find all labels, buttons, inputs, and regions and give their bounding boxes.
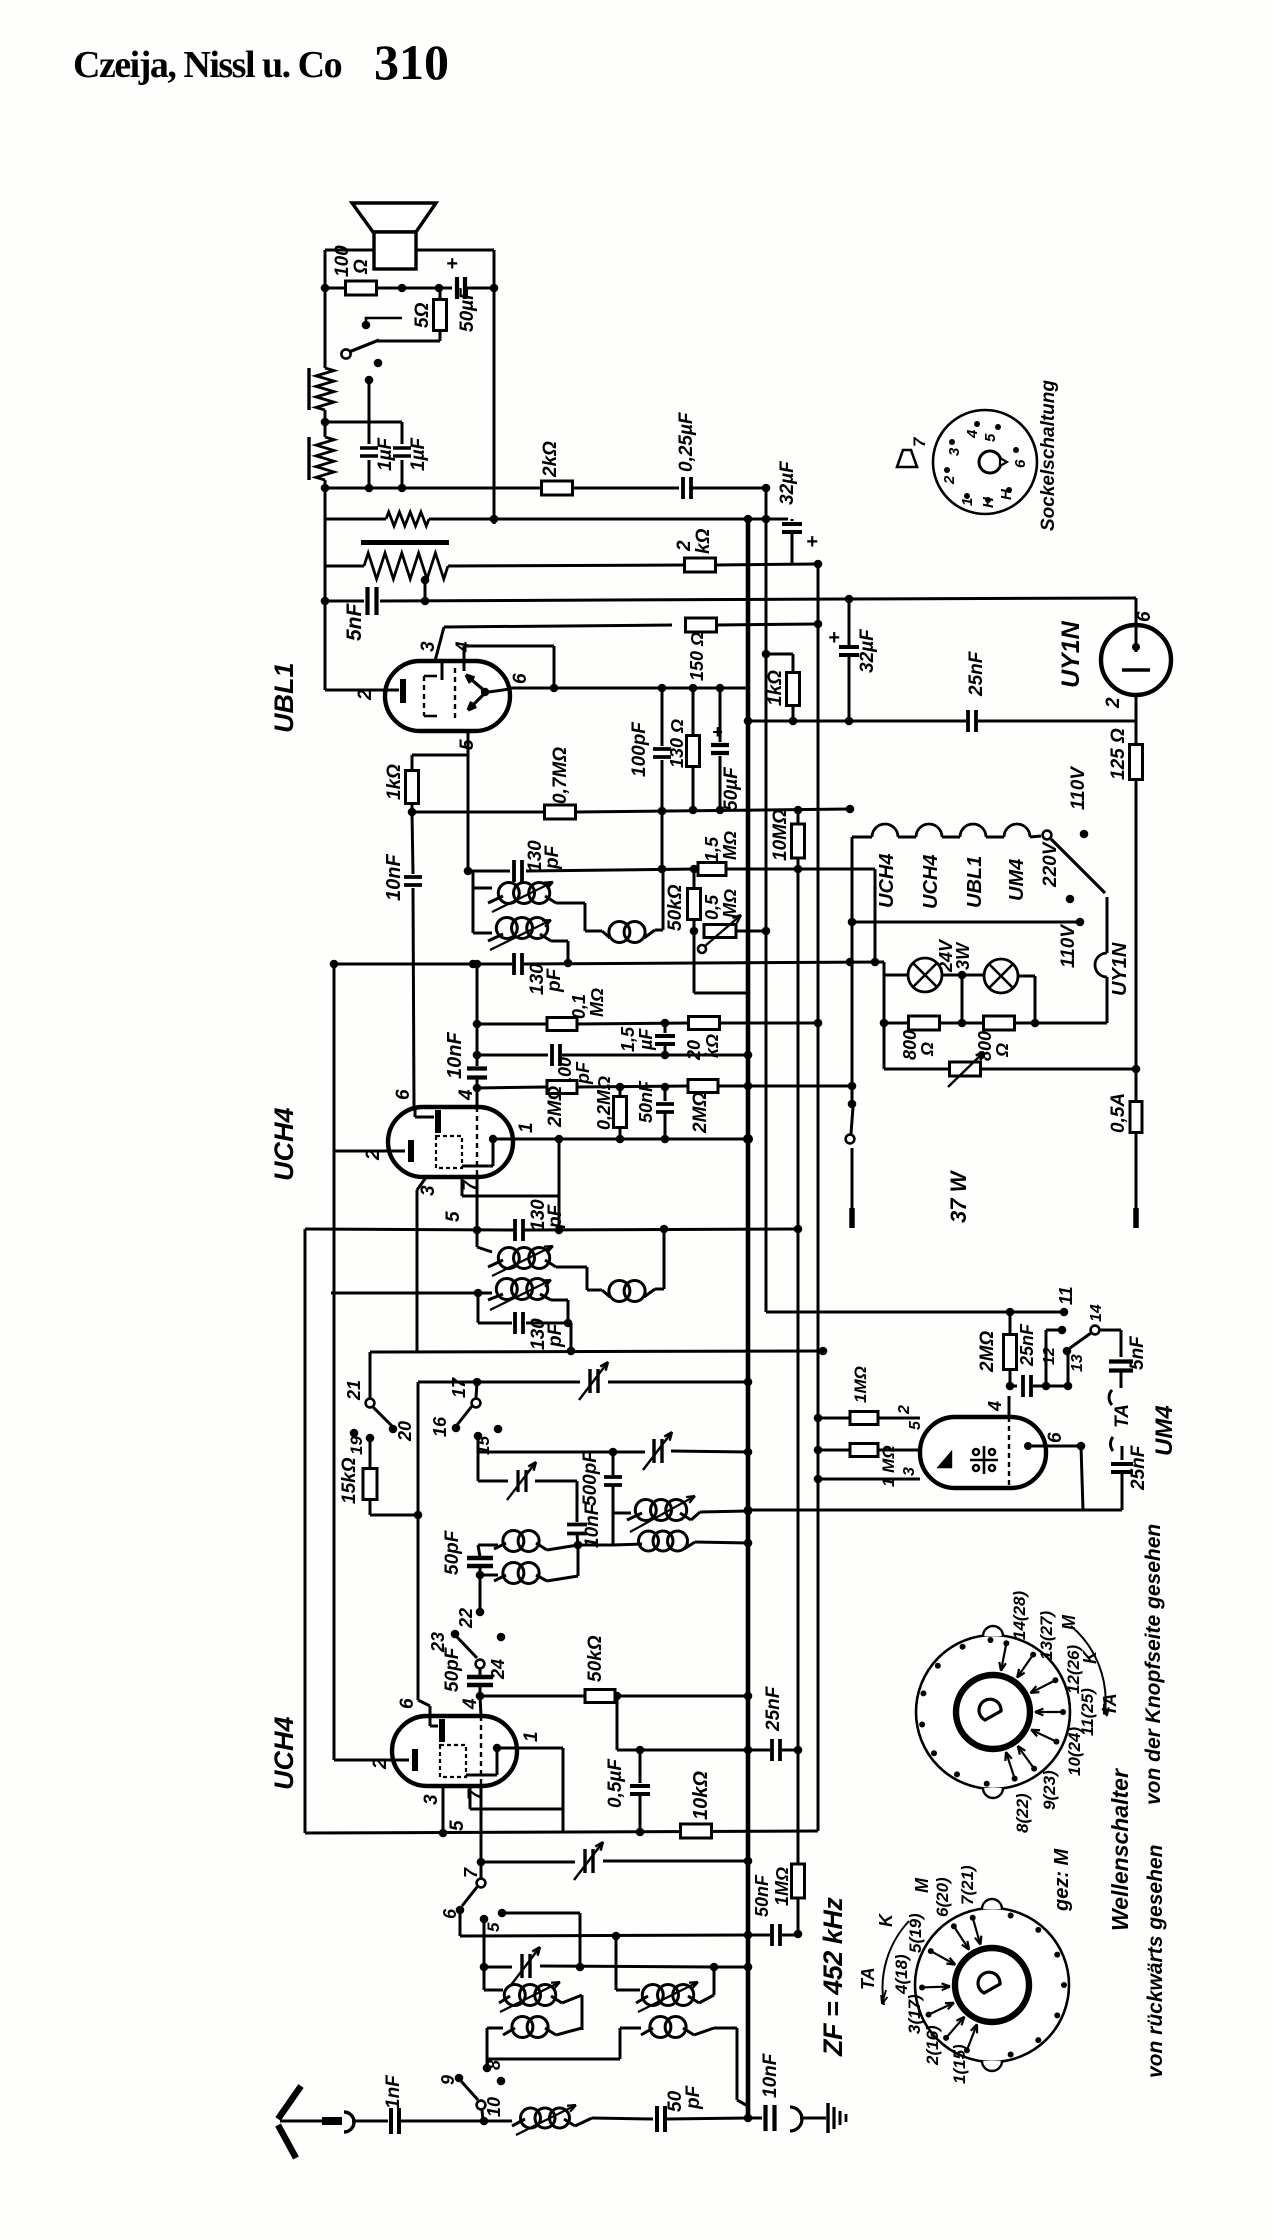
wire grid line x=477 with 10nF — [473, 960, 482, 969]
svg-text:3(17): 3(17) — [905, 1994, 924, 2034]
capacitor 130pF (IF1 bottom) — [512, 953, 516, 975]
svg-text:0,5: 0,5 — [702, 894, 722, 920]
svg-text:50kΩ: 50kΩ — [585, 1635, 606, 1682]
wire bus A (thick main bus) — [746, 519, 751, 2118]
capacitor 10nF (UBL1 grid) — [412, 812, 413, 874]
wire y=811 screen/AVC — [412, 811, 545, 814]
svg-text:von der Knopfseite gesehen: von der Knopfseite gesehen — [1142, 1524, 1165, 1805]
svg-text:K: K — [1080, 1649, 1100, 1664]
svg-text:8: 8 — [484, 2060, 504, 2070]
resistor 0,2M Ohm — [619, 1087, 622, 1097]
wire pin2 UCH4-mixer — [333, 1755, 336, 1760]
switch lever 13-14 — [1063, 1347, 1072, 1356]
resistor 10k Ohm — [681, 1824, 712, 1838]
resistor 1M Ohm (eye grid b) — [818, 1449, 849, 1452]
capacitor 50nF (bottom) — [770, 1924, 774, 1946]
svg-text:+: + — [446, 253, 458, 275]
capacitor 130pF (IF2 bottom) and wire — [477, 1293, 480, 1323]
resistor 50k Ohm (osc grid) — [585, 1690, 615, 1703]
slider bar of tapped resistor — [361, 540, 449, 545]
band switch front K M TA arc — [1071, 1626, 1106, 1712]
tube UBL1 internals — [385, 689, 399, 692]
wire x=418 oscillator line down — [417, 1382, 420, 1515]
svg-text:3: 3 — [901, 1467, 918, 1476]
svg-text:TA: TA — [1112, 1404, 1133, 1428]
wire pin2 UCH4-IF to left rail — [334, 1150, 388, 1153]
loudspeaker LS — [352, 203, 436, 232]
resistor 150 Ohm — [686, 618, 717, 632]
resistor 1k Ohm (cathode) — [411, 755, 414, 770]
switch lever 23-24 — [451, 1630, 460, 1639]
wire pin7/pin1 link — [461, 1176, 464, 1196]
switch contact 21 — [369, 1352, 372, 1398]
svg-text:UM4: UM4 — [1006, 859, 1028, 901]
pilot lamp La1 24V 3W — [908, 958, 942, 992]
svg-text:20: 20 — [395, 1421, 415, 1442]
svg-text:Ω: Ω — [992, 1043, 1012, 1058]
svg-text:6: 6 — [440, 1908, 460, 1919]
svg-text:37 W: 37 W — [946, 1169, 971, 1223]
capacitor 10nF (ground) — [748, 2117, 762, 2120]
svg-text:1(15): 1(15) — [950, 2044, 969, 2084]
wire y=1832 cathode/ground line — [305, 1831, 818, 1833]
wire left rail x=305 — [304, 1229, 307, 1833]
svg-text:10MΩ: 10MΩ — [770, 809, 791, 861]
svg-text:13: 13 — [1069, 1354, 1086, 1372]
band coil B (2 loops) — [476, 1571, 485, 1580]
wire left rail x=334 — [333, 964, 336, 1755]
svg-text:10nF: 10nF — [760, 2052, 781, 2098]
svg-text:2: 2 — [896, 1405, 913, 1415]
wire bus C (x=818) — [817, 564, 820, 1831]
resistor 100 Ohm — [325, 287, 346, 290]
tube UM4 envelope — [920, 1417, 1046, 1488]
svg-text:3: 3 — [946, 447, 963, 456]
capacitor 1nF — [389, 2108, 393, 2134]
capacitor 100pF (osc grid) — [550, 1044, 554, 1066]
svg-text:5: 5 — [484, 1922, 503, 1932]
wire selector to heater UY1N — [1106, 897, 1109, 953]
band coil A (2 loops) — [503, 1531, 524, 1552]
svg-text:10(24): 10(24) — [1065, 1727, 1084, 1776]
wire y=869 diode line — [468, 870, 510, 873]
svg-text:K: K — [876, 1912, 896, 1927]
svg-text:130 Ω: 130 Ω — [667, 719, 687, 768]
wire volume to bus — [693, 931, 696, 993]
wire y=1967 mixer grid line — [484, 1966, 512, 1969]
svg-text:1nF: 1nF — [383, 2074, 404, 2109]
svg-text:pF: pF — [545, 1203, 566, 1229]
wire pin5 shield down — [476, 1176, 479, 1230]
svg-text:UCH4: UCH4 — [269, 1107, 299, 1181]
svg-text:H: H — [998, 488, 1015, 500]
svg-text:UCH4: UCH4 — [269, 1716, 299, 1790]
svg-text:25nF: 25nF — [1128, 1444, 1149, 1491]
capacitor 1,5uF — [664, 1023, 667, 1033]
svg-text:100: 100 — [332, 245, 353, 277]
switch lever 17-16 — [457, 1406, 472, 1425]
capacitor 0,5uF — [639, 1750, 642, 1783]
svg-text:3W: 3W — [953, 941, 973, 970]
wire pin1/pin7 UCH4-mixer — [562, 1748, 565, 1832]
resistor 0,5M Ohm variable (volume) — [690, 927, 699, 936]
IF transformer 2 primary (tuned coil) — [476, 1230, 479, 1247]
svg-text:pF: pF — [542, 844, 563, 870]
wire bus B1 (AVC line to terminal 11) — [765, 488, 768, 1312]
svg-text:Sockelschaltung: Sockelschaltung — [1038, 380, 1059, 531]
wire y=964 cathode return — [334, 963, 512, 966]
svg-text:2: 2 — [1103, 697, 1124, 709]
IF transformer 1 coupling coil — [609, 922, 630, 943]
svg-text:50pF: 50pF — [442, 1646, 463, 1692]
svg-text:pF: pF — [544, 967, 565, 993]
svg-text:50pF: 50pF — [442, 1529, 463, 1575]
svg-text:kΩ: kΩ — [693, 528, 714, 554]
node bus A antenna — [744, 2114, 753, 2123]
wire y=1023 grid resistor line — [473, 1020, 482, 1029]
svg-text:10kΩ: 10kΩ — [690, 1771, 712, 1820]
node bus C to 1M resistors — [814, 1414, 823, 1423]
IF transformer 1 secondary (tuned coil) — [472, 888, 475, 933]
wire 1,5M to elbow x=875 — [798, 868, 875, 871]
resistor 0,1M Ohm — [547, 1018, 577, 1031]
svg-text:15kΩ: 15kΩ — [339, 1457, 360, 1504]
svg-text:1kΩ: 1kΩ — [765, 670, 786, 706]
svg-text:7: 7 — [465, 1788, 486, 1800]
wire B+ to rectifier y=598 — [845, 598, 1136, 599]
svg-text:10: 10 — [484, 2097, 504, 2117]
wire UY1N cathode down — [1135, 695, 1138, 745]
svg-text:MΩ: MΩ — [720, 889, 740, 918]
pilot lamp La2 — [984, 959, 1018, 993]
svg-text:3: 3 — [421, 1794, 442, 1805]
svg-text:5: 5 — [447, 1820, 468, 1831]
svg-text:1µF: 1µF — [408, 436, 429, 471]
wire antenna line y=2121 — [480, 2117, 489, 2126]
svg-text:14(28): 14(28) — [1010, 1591, 1029, 1640]
capacitor 50uF electrolytic (cathode) — [719, 688, 722, 742]
connector arc — [790, 2107, 802, 2131]
antenna symbol — [278, 2086, 301, 2119]
switch contact 22 — [479, 1575, 482, 1608]
wire y=1351 AVC return — [568, 1322, 571, 1325]
svg-text:2MΩ: 2MΩ — [545, 1086, 566, 1128]
svg-text:+: + — [806, 531, 818, 553]
trimmer capacitor (MW ant) — [520, 1954, 523, 1978]
svg-text:10nF: 10nF — [582, 1502, 603, 1548]
resistor 5 Ohm — [439, 288, 442, 300]
svg-text:2kΩ: 2kΩ — [540, 441, 561, 478]
band switch front center hole — [979, 1699, 1001, 1720]
wire y=1229/1230 AVC-IF line — [305, 1229, 514, 1230]
heater chain wire with humps — [852, 836, 872, 839]
svg-text:10nF: 10nF — [383, 854, 405, 901]
resistor 125 Ohm — [1130, 745, 1143, 780]
capacitor 130pF (IF2 top) — [513, 1219, 517, 1241]
wire eye pin 3 — [818, 1478, 920, 1481]
svg-text:TA: TA — [858, 1967, 878, 1990]
wire 50pF top to band coil A — [478, 1544, 498, 1547]
svg-text:M: M — [912, 1877, 932, 1893]
wire contact 6 down to 50nF line — [459, 1910, 462, 1936]
trimmer capacitor (antenna) — [583, 1849, 586, 1873]
svg-text:110V: 110V — [1068, 766, 1089, 810]
svg-text:MΩ: MΩ — [587, 988, 607, 1017]
voltage selector switch — [1043, 831, 1052, 840]
capacitor 50nF — [664, 1087, 667, 1101]
svg-text:4(18): 4(18) — [892, 1954, 911, 1995]
capacitor 130pF (IF1 top) — [512, 860, 516, 882]
band switch front arrows — [1001, 1643, 1006, 1670]
capacitor 50pF (antenna) — [655, 2106, 659, 2132]
svg-text:4: 4 — [964, 429, 981, 439]
svg-text:1MΩ: 1MΩ — [772, 1867, 792, 1906]
svg-text:0,1: 0,1 — [569, 994, 589, 1019]
wire speaker loop top — [325, 249, 374, 252]
svg-text:5nF: 5nF — [1127, 1335, 1148, 1370]
capacitor 50uF electrolytic (output) — [455, 277, 459, 299]
resistor 1M Ohm (vertical) — [792, 1864, 805, 1898]
ground symbol — [826, 2103, 829, 2133]
svg-text:7(21): 7(21) — [958, 1865, 977, 1905]
svg-text:13(27): 13(27) — [1037, 1611, 1056, 1660]
wire y=1382 oscillator anode line — [418, 1381, 477, 1384]
svg-text:125 Ω: 125 Ω — [1108, 728, 1129, 780]
svg-text:1 MΩ: 1 MΩ — [879, 1445, 898, 1487]
svg-text:32µF: 32µF — [857, 628, 878, 673]
band switch front perimeter dots — [984, 1781, 990, 1787]
svg-text:6: 6 — [1134, 611, 1155, 622]
resistor tapped (zigzag large) — [326, 565, 364, 568]
wire y=1055 with 100pF — [473, 1051, 482, 1060]
svg-text:gez: M: gez: M — [1051, 1847, 1073, 1912]
svg-text:1kΩ: 1kΩ — [384, 764, 405, 800]
switch contact 12 — [1045, 1330, 1048, 1386]
svg-text:UY1N: UY1N — [1057, 620, 1085, 688]
wire isolated contact to x=580 — [502, 1912, 580, 1915]
terminal 11 — [1060, 1308, 1069, 1317]
svg-text:6: 6 — [1012, 459, 1029, 468]
wire bus B (x=798) — [797, 869, 800, 1864]
svg-text:110V: 110V — [1058, 924, 1079, 968]
svg-text:50µF: 50µF — [721, 766, 742, 811]
mains switch — [848, 1082, 857, 1091]
capacitor 25nF (AVC) — [770, 1739, 774, 1761]
svg-text:32µF: 32µF — [777, 460, 798, 505]
svg-text:M: M — [1059, 1614, 1079, 1630]
capacitor 5nF — [325, 600, 364, 603]
oscillator coil 2 (feedback) — [613, 1544, 642, 1545]
connector arc TA (bottom) — [1110, 1437, 1113, 1451]
svg-text:Wellenschalter: Wellenschalter — [1107, 1768, 1133, 1931]
wire y=1139 cathode line — [559, 1138, 748, 1141]
band switch rear perimeter dots — [1008, 1912, 1014, 1918]
svg-text:19: 19 — [347, 1436, 366, 1455]
tube UY1N internals — [1135, 598, 1138, 652]
svg-text:1,5: 1,5 — [702, 836, 722, 862]
wire y=2059 to contact 8 — [487, 2058, 620, 2061]
band switch rear view body — [915, 1908, 1069, 2062]
svg-text:UCH4: UCH4 — [876, 854, 898, 908]
svg-text:5(19): 5(19) — [906, 1913, 925, 1953]
svg-text:7: 7 — [910, 436, 929, 447]
svg-text:2(16): 2(16) — [923, 2025, 942, 2066]
resistor 800 Ohm variable — [884, 1068, 950, 1071]
svg-text:von rückwärts gesehen: von rückwärts gesehen — [1144, 1845, 1167, 2078]
svg-text:6: 6 — [393, 1089, 414, 1100]
svg-text:1µF: 1µF — [375, 436, 396, 471]
band switch rear arrows — [973, 1918, 981, 1945]
wires lamps — [884, 974, 908, 977]
svg-text:2: 2 — [941, 475, 958, 485]
svg-text:H: H — [980, 496, 997, 508]
svg-text:6(20): 6(20) — [933, 1877, 952, 1917]
wire LW coil right to bus — [714, 2027, 737, 2030]
svg-text:500pF: 500pF — [580, 1450, 601, 1506]
svg-text:5: 5 — [907, 1420, 924, 1430]
wire contact 5 down to grid line — [483, 1919, 486, 1967]
svg-text:ZF = 452 kHz: ZF = 452 kHz — [818, 1897, 848, 2057]
svg-text:Czeija, Nissl u. Co: Czeija, Nissl u. Co — [73, 44, 342, 86]
svg-text:pF: pF — [683, 2084, 704, 2110]
wire pin4 line (50pF down) — [480, 1696, 481, 1716]
svg-text:UBL1: UBL1 — [269, 662, 299, 733]
svg-text:5: 5 — [443, 1211, 464, 1222]
svg-text:14: 14 — [1088, 1304, 1105, 1322]
resistor 2 kOhm (B+ dropper) — [685, 558, 716, 572]
resistor 50k Ohm (diode load) — [693, 869, 696, 889]
wire y=1087 grid leak line — [473, 1084, 482, 1093]
capacitor 1uF (right) — [325, 421, 402, 424]
svg-text:5nF: 5nF — [343, 602, 366, 641]
tap on zigzag — [421, 576, 430, 585]
switch contacts 5 — [480, 1915, 489, 1924]
svg-text:5: 5 — [982, 433, 999, 442]
capacitor 25nF (mains) — [966, 710, 970, 732]
svg-text:MΩ: MΩ — [720, 831, 740, 860]
svg-text:100pF: 100pF — [629, 721, 650, 777]
wire x=331 elbow from left rail — [333, 964, 336, 1293]
svg-text:22: 22 — [456, 1608, 476, 1629]
switch contact 8 — [483, 2064, 492, 2073]
tube UCH4 (mixer) internals — [429, 1706, 432, 1726]
resistor 2M Ohm (b) — [688, 1080, 718, 1093]
svg-text:25nF: 25nF — [763, 1685, 784, 1732]
svg-text:1,5: 1,5 — [618, 1026, 638, 1052]
svg-text:1MΩ: 1MΩ — [851, 1366, 870, 1403]
wire pin5 UCH4-mixer — [480, 1786, 483, 1862]
resistor 2M Ohm (a) — [547, 1081, 577, 1094]
switch contact 7 and lever 7-6 — [480, 1866, 483, 1878]
svg-text:5Ω: 5Ω — [412, 302, 433, 328]
wire y=1696 osc grid leak — [480, 1695, 585, 1698]
switch tone (top-left) — [378, 340, 440, 343]
wire right rail x=494 — [493, 250, 496, 524]
capacitor 32uF electrolytic (first) — [791, 519, 794, 521]
IF transformer 1 primary (tuned coil) — [472, 871, 475, 888]
wire pin3 UCH4-mixer — [442, 1786, 445, 1833]
svg-text:TA: TA — [1100, 1693, 1120, 1716]
antenna coil LW (tuned) — [615, 1936, 618, 1990]
svg-text:17: 17 — [449, 1377, 469, 1398]
svg-text:220V: 220V — [1040, 841, 1061, 888]
svg-text:21: 21 — [344, 1380, 364, 1401]
svg-text:16: 16 — [430, 1416, 450, 1437]
resistor 800 Ohm (2) — [984, 1016, 1015, 1030]
band switch rear center hole — [978, 1972, 1000, 1993]
oscillator coil 1 (tuned) — [613, 1512, 631, 1515]
svg-text:2: 2 — [674, 540, 695, 552]
switch contact 17 — [476, 1382, 477, 1398]
antenna coil MW (tuned) — [483, 1967, 486, 1990]
wire y=519 with tone resistor — [325, 518, 386, 521]
capacitor 5nF (TA) — [1099, 1329, 1121, 1332]
svg-text:9: 9 — [438, 2075, 458, 2085]
svg-text:4: 4 — [985, 1401, 1005, 1412]
capacitor 10nF (padder) — [576, 1481, 579, 1522]
band switch rear K M TA arc — [883, 1921, 909, 2005]
resistor 15k Ohm — [369, 1438, 372, 1469]
wire y=1750 AVC to bus — [617, 1749, 748, 1752]
capacitor 100pF — [661, 688, 664, 746]
svg-text:UBL1: UBL1 — [964, 856, 986, 908]
wire 110V tap — [852, 921, 1080, 924]
svg-text:+: + — [712, 722, 723, 742]
svg-text:11: 11 — [1056, 1286, 1076, 1305]
svg-text:0,5µF: 0,5µF — [605, 1758, 626, 1808]
wire y=1862 osc grid line — [481, 1861, 575, 1864]
tube UCH4 (mixer) envelope — [392, 1716, 517, 1786]
svg-text:Ω: Ω — [917, 1042, 937, 1057]
svg-text:0,25µF: 0,25µF — [676, 411, 697, 472]
svg-text:9(23): 9(23) — [1040, 1770, 1059, 1810]
capacitor 1uF (left) — [365, 376, 374, 385]
connector arc TA (top) — [1109, 1390, 1112, 1405]
node P1/P2 — [321, 418, 330, 427]
potentiometer P2 — [307, 437, 310, 480]
svg-text:2MΩ: 2MΩ — [690, 1092, 711, 1134]
svg-text:UY1N: UY1N — [1109, 942, 1131, 996]
svg-text:50nF: 50nF — [752, 1874, 772, 1917]
resistor 20k Ohm — [689, 1017, 720, 1030]
wire y=721 rectifier output — [748, 720, 966, 723]
svg-text:6: 6 — [510, 673, 531, 684]
wire UM4 pin6 down to output line — [1077, 1442, 1086, 1451]
IF transformer 2 secondary (tuned coil) — [474, 1289, 483, 1298]
capacitor 50pF (osc top) — [478, 1545, 480, 1557]
svg-text:6: 6 — [1045, 1432, 1066, 1443]
wire 15k to oscillator line — [370, 1514, 418, 1517]
svg-text:UCH4: UCH4 — [920, 855, 942, 909]
trimmer capacitor (band) — [652, 1439, 655, 1463]
wire y=1510 output to TA — [748, 1509, 1083, 1512]
svg-text:µF: µF — [636, 1028, 656, 1051]
resistor (zigzag) tone network — [386, 512, 429, 526]
tube UY1N envelope — [1101, 625, 1171, 695]
resistor 1M Ohm (eye grid a) — [818, 1417, 849, 1420]
IF transformer 2 coupling coil — [609, 1281, 630, 1302]
wire pin4 UBL1 — [463, 646, 466, 661]
wire pin6 UBL1 (plate) — [510, 687, 748, 690]
antenna input coil (tuned) — [521, 2108, 541, 2128]
svg-text:Ω: Ω — [351, 259, 372, 275]
resistor 1,5M Ohm — [698, 863, 726, 876]
svg-text:UM4: UM4 — [1151, 1405, 1178, 1456]
potentiometer P1 (with slider bar) — [307, 368, 310, 410]
switch lever 21-20 — [373, 1407, 392, 1426]
svg-text:50µF: 50µF — [457, 287, 478, 332]
resistor 0,7M Ohm — [545, 805, 576, 819]
